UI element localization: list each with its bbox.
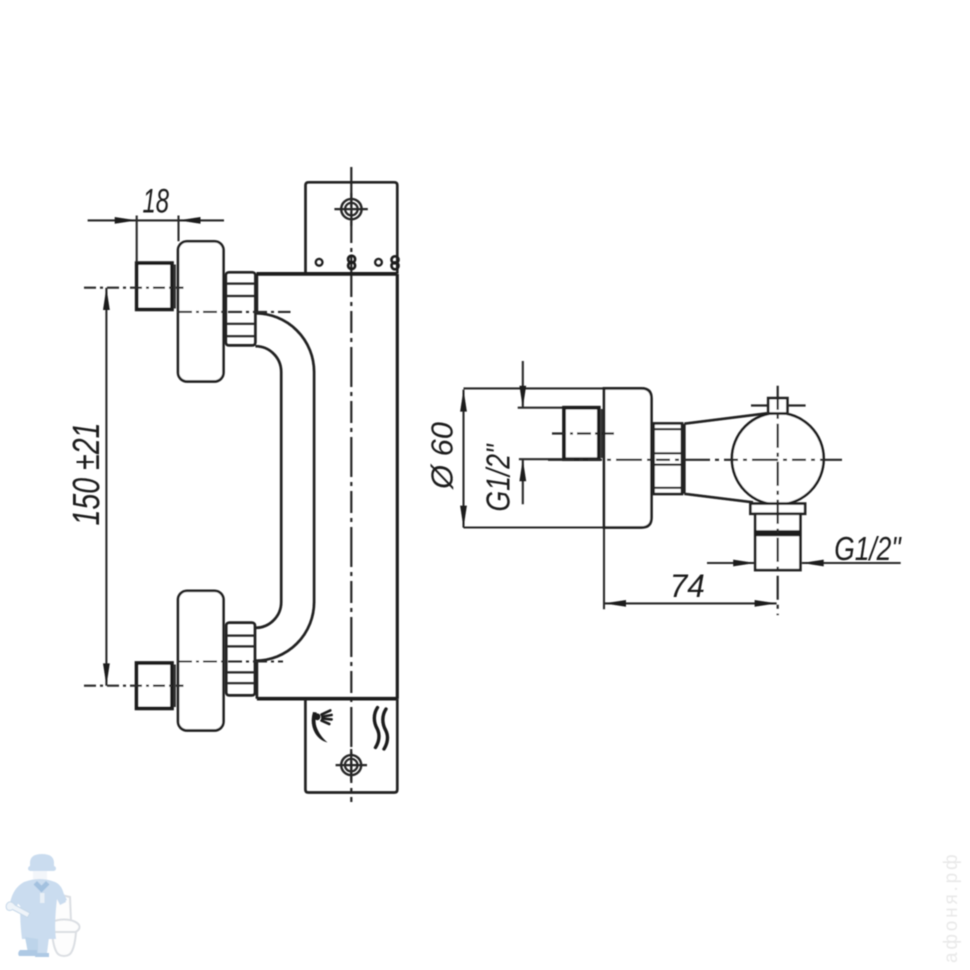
svg-text:74: 74 <box>670 568 705 604</box>
svg-text:G1/2": G1/2" <box>480 443 517 511</box>
svg-text:18: 18 <box>143 183 170 221</box>
svg-text:G1/2": G1/2" <box>834 530 902 567</box>
svg-text:Ø 60: Ø 60 <box>425 422 460 490</box>
svg-text:афоня.рф: афоня.рф <box>941 852 962 963</box>
svg-text:150 ±21: 150 ±21 <box>66 423 108 526</box>
